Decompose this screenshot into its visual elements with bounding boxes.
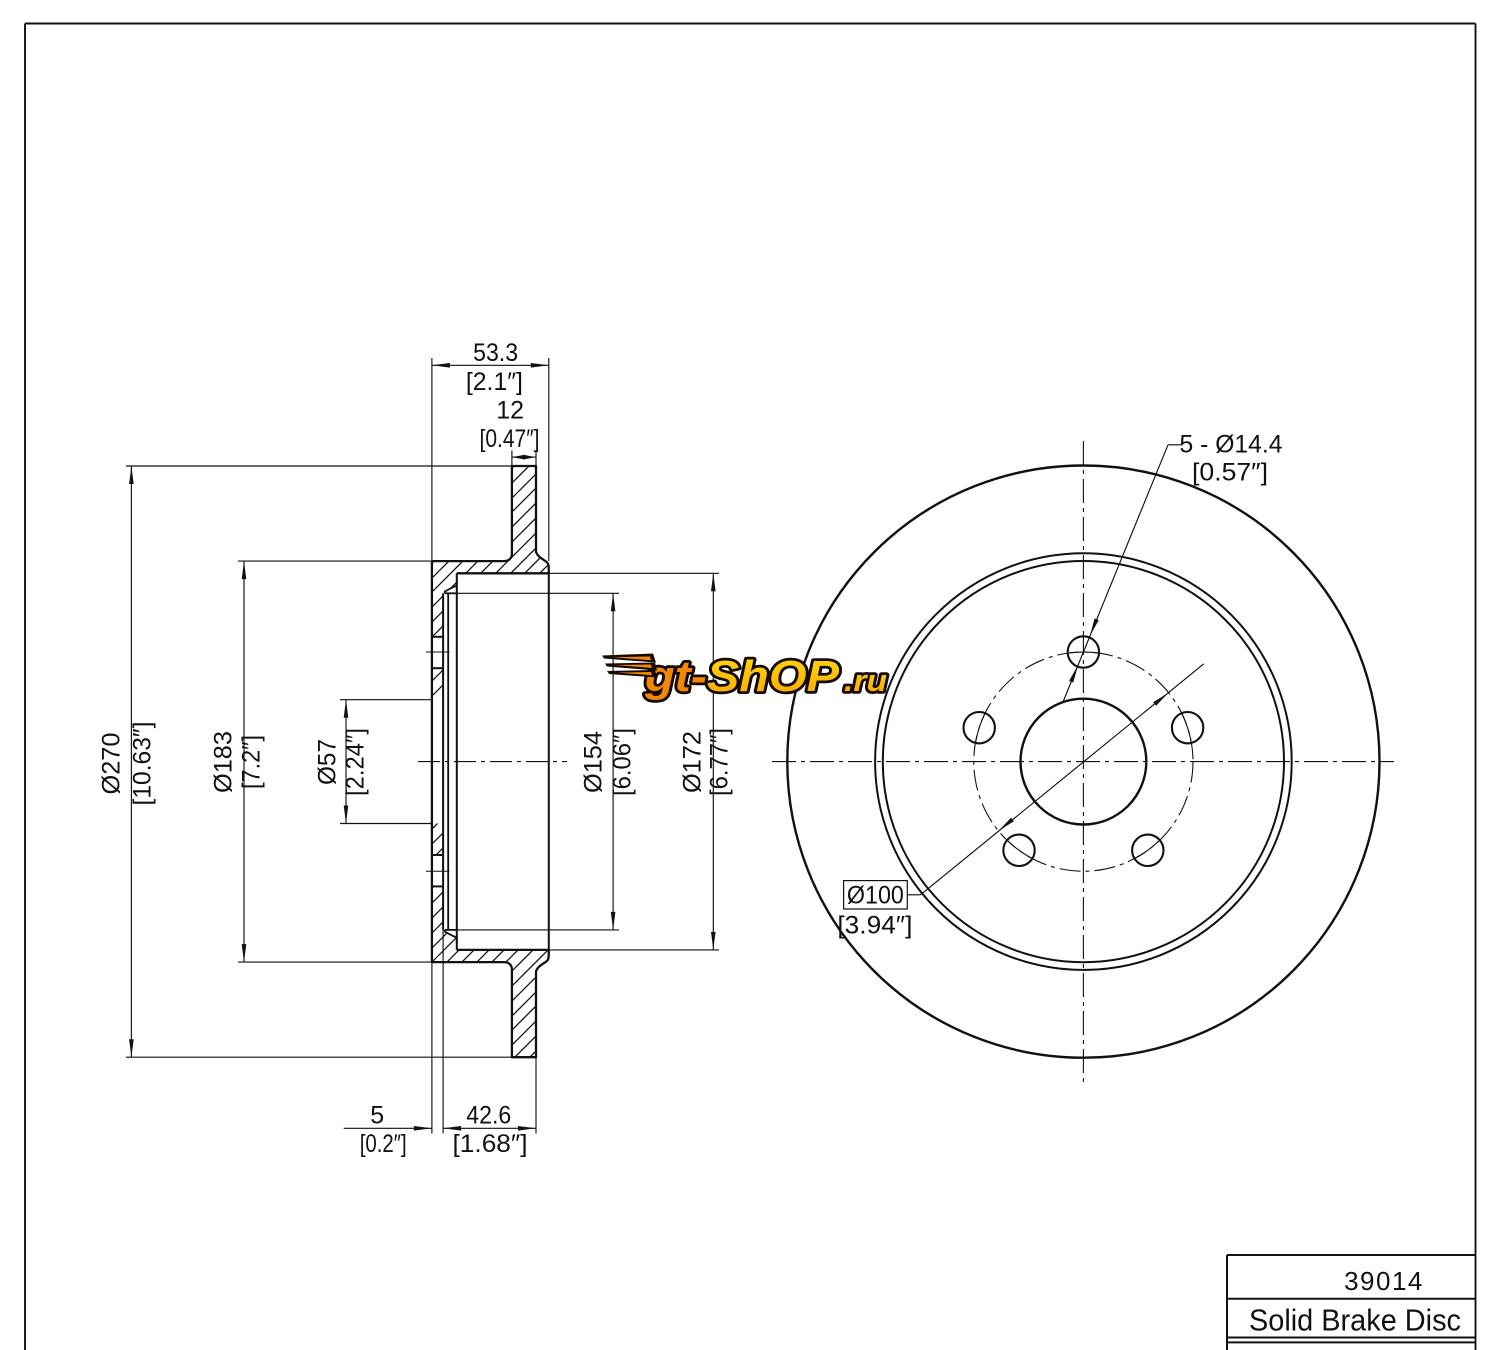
front view: hat circle O183 bbox=[883, 561, 1284, 962]
svg-text:[3.94″]: [3.94″] bbox=[837, 912, 912, 940]
section: drum surface (O154) lower bbox=[445, 929, 457, 931]
svg-text:[6.77″]: [6.77″] bbox=[705, 728, 733, 796]
svg-text:[6.06″]: [6.06″] bbox=[609, 728, 637, 796]
bolt circle arc through hole 3 bbox=[1135, 840, 1160, 858]
svg-text:gt-ShOP: gt-ShOP bbox=[644, 652, 840, 701]
svg-text:Solid Brake Disc: Solid Brake Disc bbox=[1249, 1303, 1461, 1338]
section: relief notch curves bbox=[445, 580, 457, 594]
dimension O57 bbox=[345, 700, 347, 824]
svg-text:Ø270: Ø270 bbox=[98, 733, 126, 795]
dimension 5 bbox=[344, 1127, 432, 1129]
dimension O172 bbox=[712, 573, 714, 950]
front view: braking band inner circle bbox=[875, 553, 1292, 970]
speed streaks bbox=[602, 654, 656, 663]
svg-text:[10.63″]: [10.63″] bbox=[129, 722, 157, 806]
dimension O270 bbox=[130, 466, 132, 1057]
section: flange right face bbox=[442, 593, 444, 930]
front view: bolt hole 5 O14.4 bbox=[964, 712, 995, 743]
section: flange left face / centre hole silhouette bbox=[431, 561, 433, 962]
dimension 42.6 bbox=[443, 1127, 536, 1129]
section: bolt hole edges in flange bbox=[432, 636, 443, 638]
leader 5-O14.4 bbox=[1168, 444, 1183, 446]
svg-text:42.6: 42.6 bbox=[466, 1102, 511, 1130]
svg-text:Ø183: Ø183 bbox=[210, 731, 238, 793]
bolt circle arc through hole 4 bbox=[1007, 840, 1032, 858]
section: drum surface (O154) upper bbox=[445, 592, 457, 594]
svg-text:[0.57″]: [0.57″] bbox=[1192, 459, 1268, 487]
svg-text:[7.2″]: [7.2″] bbox=[238, 735, 266, 789]
svg-text:.ru: .ru bbox=[844, 663, 887, 698]
svg-text:[0.2″]: [0.2″] bbox=[360, 1130, 407, 1158]
svg-text:53.3: 53.3 bbox=[473, 339, 518, 367]
svg-text:Ø154: Ø154 bbox=[580, 731, 608, 793]
bolt circle arc through hole 2 bbox=[1182, 714, 1191, 743]
front view: bolt hole 2 O14.4 bbox=[1172, 712, 1203, 743]
svg-text:39014: 39014 bbox=[1344, 1266, 1424, 1296]
front view: horizontal centerline bbox=[772, 761, 1394, 763]
svg-text:5: 5 bbox=[370, 1102, 384, 1130]
section: disc and hat outline (lower half) bbox=[432, 950, 549, 1057]
front view: vertical centerline bbox=[1082, 441, 1084, 1082]
section: bolt hole centerlines bbox=[426, 651, 450, 653]
title block bbox=[1227, 1254, 1476, 1256]
svg-text:Ø172: Ø172 bbox=[678, 731, 706, 793]
svg-text:12: 12 bbox=[496, 397, 524, 425]
dimension O154 bbox=[612, 593, 614, 930]
section: notch circular edge bbox=[456, 573, 458, 950]
section: main centerline bbox=[418, 761, 567, 763]
extension lines bbox=[126, 465, 512, 467]
page border frame bbox=[25, 23, 1476, 25]
dimension O100 diagonal bbox=[921, 664, 1204, 895]
svg-text:5 - Ø14.4: 5 - Ø14.4 bbox=[1180, 431, 1283, 459]
svg-text:[2.24″]: [2.24″] bbox=[342, 728, 370, 796]
svg-text:[2.1″]: [2.1″] bbox=[466, 368, 523, 396]
section: hat mouth circular edge bbox=[548, 573, 550, 950]
front view: bolt hole 4 O14.4 bbox=[1003, 835, 1034, 866]
dimension O183 bbox=[243, 561, 245, 962]
svg-text:Ø100: Ø100 bbox=[847, 881, 904, 909]
dimension 53.3 bbox=[432, 364, 549, 366]
svg-text:[1.68″]: [1.68″] bbox=[453, 1130, 528, 1158]
section: groove circular edge bbox=[447, 593, 449, 930]
front view: bolt hole 3 O14.4 bbox=[1132, 835, 1163, 866]
dimension 12 bbox=[512, 456, 536, 458]
gt-shop.ru watermark logo bbox=[602, 652, 887, 701]
section: disc and hat outline (upper half) bbox=[432, 466, 549, 573]
front view: bolt hole 1 O14.4 bbox=[1068, 636, 1099, 667]
front view: outer circle O270 bbox=[787, 465, 1379, 1057]
bolt circle arc through hole 5 bbox=[976, 714, 985, 743]
front view: centre hole O57 bbox=[1021, 699, 1147, 825]
bolt circle arc through hole 1 bbox=[1068, 652, 1099, 653]
svg-text:[0.47″]: [0.47″] bbox=[480, 425, 540, 453]
svg-text:Ø57: Ø57 bbox=[314, 739, 342, 785]
front view: bolt circle O100 (dash-dot) bbox=[974, 652, 1193, 871]
